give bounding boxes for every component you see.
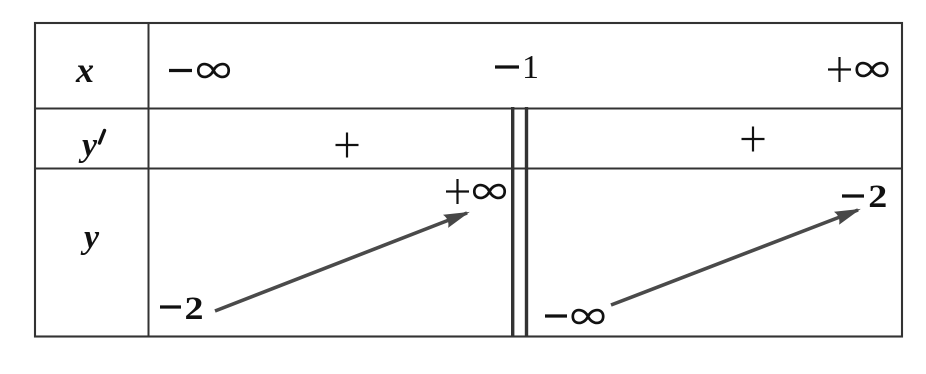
svg-text:1: 1 [522, 49, 539, 86]
svg-text:2: 2 [185, 291, 204, 327]
svg-text:x: x [75, 50, 94, 90]
svg-text:y: y [80, 219, 100, 256]
svg-text:2: 2 [868, 179, 887, 215]
svg-text:y: y [78, 127, 98, 164]
